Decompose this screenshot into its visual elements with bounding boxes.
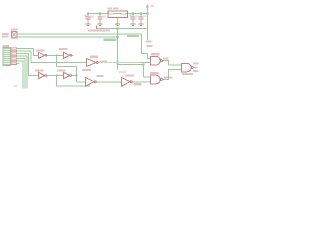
T3 upper label text <box>119 71 126 73</box>
capacitor C1 plates <box>86 17 91 19</box>
X2 pin 7 <box>11 63 17 65</box>
gate G1 inverter <box>39 52 47 58</box>
junction dot rail C2 <box>99 13 101 15</box>
capacitor C4 lower stub <box>140 20 142 24</box>
wire gate B out <box>163 70 182 80</box>
capacitor C4 value text <box>144 15 147 17</box>
wire T2 out to T3 <box>96 81 121 83</box>
inverter T2 <box>86 78 97 87</box>
capacitor C1 value text <box>91 16 95 18</box>
junction dot rail C1 <box>87 13 89 15</box>
X2 name above <box>3 45 10 47</box>
wire gate C out <box>194 67 198 69</box>
IC1 inside pin text right <box>122 13 127 15</box>
IC1 regulator box <box>108 11 128 17</box>
X2 pin 6 <box>11 60 17 62</box>
wire row2 G4 out to x76.5 <box>72 75 77 77</box>
wire W2 y37 <box>17 36 118 38</box>
VCC stem down to y28 <box>147 14 149 29</box>
gate A label above <box>151 53 160 55</box>
capacitor C1 plus sign <box>85 15 87 17</box>
capacitor C4 stub <box>140 14 142 17</box>
capacitor C3 stub <box>132 14 134 17</box>
X2 pin 4 <box>11 55 17 57</box>
wire into T2 input <box>77 81 86 83</box>
wire link vertical x143.5 <box>143 65 145 78</box>
gate G1 label <box>36 49 45 51</box>
VCC supply stem <box>147 8 149 14</box>
T2 label right <box>97 75 104 77</box>
junction dot rail VCC stem <box>147 13 149 15</box>
gate B label above <box>150 72 159 74</box>
junction dot x143.5 y64.3 <box>143 64 145 66</box>
wire T3 out to gate B in2 <box>132 81 150 83</box>
VCC symbol name text <box>151 5 155 7</box>
IC1 value text above <box>113 7 119 9</box>
X2 pin 1 <box>11 48 17 50</box>
ground under IC1 <box>115 24 120 26</box>
ground under C3 <box>131 24 136 26</box>
gate C label below <box>182 73 193 75</box>
X2 connector body <box>3 48 11 66</box>
gate G3 inverter <box>39 72 47 78</box>
gate G4 inverter <box>64 72 72 78</box>
wire W1 vertical x141 <box>141 34 143 54</box>
junction dot x117.5 y28 <box>117 28 119 30</box>
inverter T3 <box>122 78 133 87</box>
gate B label right <box>164 76 173 78</box>
X1 pin text left row1 <box>2 33 9 35</box>
wire row2 branch down to y86.2 <box>57 76 91 87</box>
wire pin5 down <box>17 59 26 89</box>
wire row1 branch down x56.6 <box>57 55 77 66</box>
capacitor C3 plates <box>131 17 136 19</box>
gate G2 label <box>59 48 68 50</box>
wire W1 jog y53.5 <box>142 53 148 55</box>
gate A output pin label <box>163 57 169 59</box>
X1 jack box <box>12 32 18 39</box>
NAND gate B <box>151 75 163 84</box>
capacitor C3 value text <box>136 15 139 17</box>
ground under C1 <box>86 24 91 26</box>
junction dot rail C4 <box>140 13 142 15</box>
VCC supply symbol <box>146 4 149 7</box>
inverter T1 <box>87 59 99 67</box>
ground under C2 <box>98 24 103 26</box>
capacitor C4 plates <box>139 17 144 19</box>
X2 pin 3 <box>11 53 17 55</box>
capacitor C2 plates <box>98 17 103 19</box>
red pin label near x152 upper <box>146 41 152 43</box>
wire W2 vertical x117.5 <box>117 29 119 65</box>
power pin stub x147.5 <box>147 29 149 41</box>
X2 pin 5 <box>11 58 17 60</box>
NAND gate A <box>151 56 163 65</box>
wire row1 G1 to G2 <box>47 54 64 56</box>
capacitor C3 lower stub <box>132 20 134 24</box>
ground under C4 <box>139 24 144 26</box>
wire W1 jog vertical x147.5 <box>147 54 149 59</box>
green net label on W2 <box>104 39 117 41</box>
wire W2 branch y64.5 <box>118 64 144 66</box>
wire pin4 down <box>17 56 28 89</box>
wire pin1 to row1 <box>17 49 39 56</box>
T2 label above <box>82 69 91 71</box>
junction dot row2 x56.6 <box>56 75 58 77</box>
T1 label right <box>100 60 108 62</box>
wire W1 into gate A in1 <box>148 57 151 59</box>
NAND gate C <box>182 63 194 72</box>
wire stub x117.5 below branch <box>117 65 119 70</box>
wire pin2 to T1 input <box>17 51 87 62</box>
gate G4 label <box>57 69 66 71</box>
wire VCC net y28 <box>97 28 148 30</box>
capacitor C1 lower stub <box>87 20 89 24</box>
X1 pin text left row2 <box>2 36 9 38</box>
gate G3 label <box>35 69 44 71</box>
red net label text on y28 wire <box>88 30 110 32</box>
T3 label above <box>125 75 134 77</box>
wire row1 G2 out stub <box>72 54 74 56</box>
wire W1 y34 <box>17 33 142 35</box>
X1 name above <box>11 29 18 31</box>
green net label on W1 <box>127 35 139 37</box>
junction dot x76.5 row2 <box>76 75 78 77</box>
capacitor C3 plus sign <box>130 15 132 17</box>
wire into gate B in1 <box>144 76 151 78</box>
T3 label right <box>134 83 142 85</box>
red text smudge lower left <box>14 85 18 87</box>
T1 label above <box>90 56 98 58</box>
VCC net left end pin tick <box>96 26 98 30</box>
capacitor C2 stub <box>99 14 101 17</box>
wire row2 G3 to G4 <box>47 75 64 77</box>
capacitor C2 lower stub <box>99 20 101 24</box>
junction dot rail C3 <box>132 13 134 15</box>
capacitor C1 stub <box>87 14 89 17</box>
wire pin7 stub <box>17 63 20 65</box>
wire T1 out to gate A in2 <box>98 62 140 64</box>
junction dot x117.5 y37 <box>117 36 119 38</box>
IC1 name text above <box>108 7 113 9</box>
wire gate A out <box>163 61 182 66</box>
IC1 inside pin text left <box>109 13 113 15</box>
gate G2 inverter <box>64 52 72 58</box>
gate C label right upper <box>193 63 199 65</box>
red pin label near x152 lower <box>147 45 153 47</box>
wire power rail y13 <box>87 13 148 15</box>
junction dot x117.5 y62.5 <box>117 62 119 64</box>
X2 pin 2 <box>11 50 17 52</box>
capacitor C2 value text <box>103 16 107 18</box>
wire pin3 to row2 <box>17 54 39 76</box>
wire branch vertical x76.5 <box>76 67 78 82</box>
wire pin6 down <box>17 61 23 89</box>
gate C label right lower <box>193 70 199 72</box>
junction dot row1 x56.6 <box>56 55 58 57</box>
IC1 gnd stub <box>116 18 118 24</box>
